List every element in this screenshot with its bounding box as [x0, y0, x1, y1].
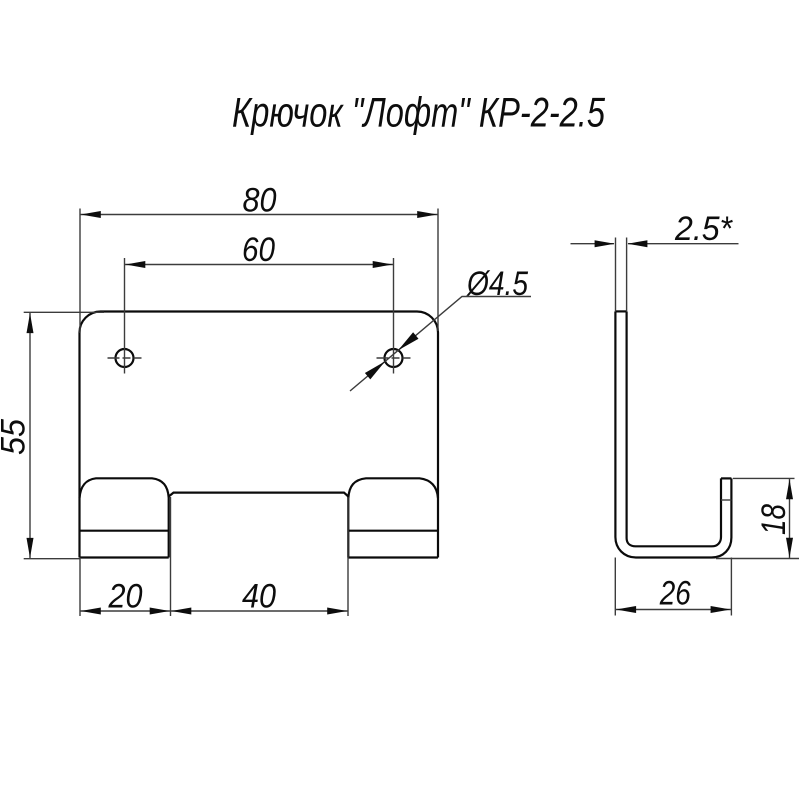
- svg-text:55: 55: [0, 419, 33, 455]
- dim line 55: [29, 312, 31, 558]
- ext line 20 left: [79, 558, 81, 617]
- arrow dim80 left: [81, 211, 101, 218]
- front view plate right edge: [437, 333, 439, 558]
- svg-text:Крючок "Лофт" КР-2-2.5: Крючок "Лофт" КР-2-2.5: [232, 89, 605, 136]
- side view lip top edge: [721, 477, 731, 479]
- arrow dim60 left: [125, 261, 145, 268]
- svg-text:18: 18: [755, 504, 793, 535]
- arrow dim40 right: [327, 608, 347, 615]
- svg-text:20: 20: [108, 578, 143, 616]
- svg-text:26: 26: [659, 575, 691, 613]
- arrow dim2.5 right (outside pointing left): [627, 240, 647, 247]
- dim line 2.5 left segment: [571, 243, 615, 245]
- arrow dim20 right: [150, 608, 170, 615]
- ext line 55 bottom: [24, 558, 80, 560]
- hole left: [116, 349, 134, 367]
- dim line 60: [125, 264, 394, 266]
- ext line 40 right: [347, 497, 349, 616]
- arrow leader lower (points at hole): [365, 361, 385, 379]
- right tab left edge: [347, 497, 349, 558]
- svg-text:40: 40: [242, 578, 276, 616]
- svg-text:60: 60: [242, 231, 275, 269]
- dim line 26: [615, 609, 731, 611]
- ext line 80 right: [437, 209, 439, 332]
- left tab right edge: [168, 497, 170, 558]
- lip inner tick (side view): [721, 499, 731, 501]
- arrow dim20 left: [81, 608, 101, 615]
- hole left horizontal centerline: [108, 357, 142, 359]
- ext line 26 right: [730, 558, 732, 616]
- left tab bend line: [80, 530, 169, 532]
- arrow dim80 right: [417, 211, 437, 218]
- right tab bend line: [348, 530, 438, 532]
- hole right horizontal centerline: [377, 357, 411, 359]
- leader line for hole diameter: [350, 297, 531, 392]
- dim line 80: [80, 214, 438, 216]
- svg-text:Ø4.5: Ø4.5: [466, 265, 528, 303]
- ext line 80 left: [79, 209, 81, 334]
- right tab bottom edge: [348, 556, 438, 558]
- svg-text:2.5*: 2.5*: [674, 210, 734, 248]
- side view top edge: [615, 310, 626, 312]
- hole right: [385, 349, 403, 367]
- arrow dim55 bottom: [27, 538, 34, 558]
- svg-text:80: 80: [243, 181, 277, 219]
- ext line 20/40 middle: [170, 497, 172, 616]
- ext line 60 right / hole centerline: [393, 258, 395, 374]
- left tab bottom edge: [80, 556, 169, 558]
- front view plate left edge: [78, 333, 80, 558]
- middle cut line between tabs: [169, 493, 349, 497]
- ext line 18 bottom: [716, 558, 799, 560]
- arrow dim55 top: [27, 313, 34, 333]
- side view inner contour: [627, 311, 721, 546]
- side view outer contour: [615, 311, 731, 557]
- right tab lip outline (rounded top): [348, 478, 438, 498]
- dim line 20 and 40: [80, 610, 348, 612]
- dim line 2.5 right segment / shoulder: [628, 243, 739, 245]
- ext line 26 left: [614, 558, 616, 616]
- arrow dim2.5 left (outside pointing right): [595, 240, 615, 247]
- ext line 2.5 left: [615, 238, 617, 312]
- ext line 18 top: [733, 477, 795, 479]
- arrow dim40 left: [171, 608, 191, 615]
- arrow dim18 bottom: [786, 538, 793, 558]
- ext line 2.5 right: [626, 238, 628, 312]
- arrow dim18 top: [786, 479, 793, 499]
- ext line 55 top: [24, 311, 104, 313]
- arrow dim26 right: [711, 606, 731, 613]
- dim line 18: [789, 478, 791, 558]
- left tab lip outline (rounded top): [80, 478, 169, 498]
- arrow leader upper (points at hole): [398, 332, 418, 350]
- arrow dim26 left: [616, 606, 636, 613]
- arrow dim60 right: [373, 261, 393, 268]
- ext line 60 left / hole centerline: [124, 258, 126, 374]
- front view plate top edge with rounded corners: [80, 312, 439, 333]
